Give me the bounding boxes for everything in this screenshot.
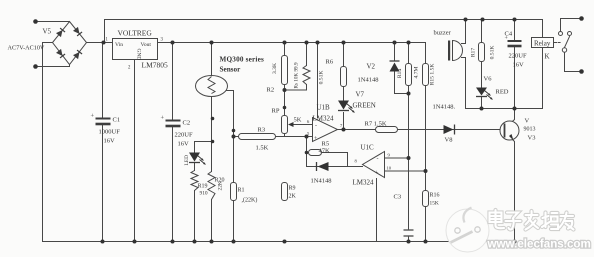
svg-text:R5: R5 bbox=[322, 141, 330, 148]
svg-text:buzzer: buzzer bbox=[434, 30, 452, 37]
resistor R15 box bbox=[423, 64, 429, 86]
resistor Rs zigzag bbox=[303, 66, 310, 85]
op-amp U1C bbox=[363, 152, 385, 178]
svg-text:C1: C1 bbox=[113, 117, 121, 124]
wire relay coil column bbox=[542, 48, 544, 109]
wire V3 emitter to ground bbox=[506, 134, 515, 242]
wire V6 to collector rail bbox=[481, 97, 483, 109]
svg-text:R16: R16 bbox=[430, 193, 440, 199]
capacitor C2 bbox=[166, 121, 181, 127]
svg-text:LM7805: LM7805 bbox=[142, 61, 169, 70]
wire bridge right to regulator Vin bbox=[87, 42, 113, 44]
pin numbers U1B U1C bbox=[307, 119, 392, 171]
svg-text:V2: V2 bbox=[367, 63, 376, 71]
wire R6 V7 column bbox=[343, 43, 345, 130]
capacitor C3 plates bbox=[404, 230, 414, 236]
svg-text:3.3K: 3.3K bbox=[272, 63, 278, 74]
svg-text:LED: LED bbox=[184, 155, 190, 166]
watermark logo circle bbox=[446, 208, 489, 253]
svg-text:5K: 5K bbox=[294, 117, 302, 124]
wire R2 column bbox=[284, 43, 286, 91]
svg-text:GND: GND bbox=[136, 49, 142, 61]
buzzer bbox=[448, 41, 450, 61]
wire U1C plus input to node bbox=[385, 170, 426, 172]
svg-text:C2: C2 bbox=[183, 120, 191, 127]
wire sensor bottom pin down to LED branch and R20 bbox=[195, 94, 212, 172]
svg-text:Vin: Vin bbox=[115, 42, 123, 48]
svg-text:K: K bbox=[545, 53, 550, 61]
terminal AC top bbox=[33, 19, 38, 24]
wire R19 to ground bbox=[194, 191, 196, 242]
svg-text:GREEN: GREEN bbox=[353, 102, 376, 110]
wire U1B feedback junction column bbox=[306, 137, 308, 167]
resistor R17 box bbox=[479, 43, 485, 62]
relay dashed link bbox=[555, 42, 562, 44]
watermark chinese text dianzifashaoyou bbox=[490, 210, 574, 230]
LED V6 bbox=[476, 88, 487, 96]
resistor R19 zigzag bbox=[191, 171, 198, 191]
wire C2 column bbox=[172, 43, 174, 242]
wire LED to R19 bbox=[194, 164, 196, 171]
svg-text:4.7M: 4.7M bbox=[414, 66, 420, 78]
svg-text:10: 10 bbox=[387, 166, 392, 171]
svg-text:U1C: U1C bbox=[361, 144, 375, 152]
svg-text:910: 910 bbox=[200, 191, 208, 197]
switch arm diagonal bbox=[565, 37, 570, 48]
wire buzzer bottom lead bbox=[462, 58, 466, 109]
svg-text:16V: 16V bbox=[104, 138, 116, 145]
resistor R7 box bbox=[376, 127, 398, 133]
svg-text:LM324: LM324 bbox=[313, 115, 335, 123]
wire R14 C3 column bbox=[408, 43, 410, 242]
terminal AC bottom bbox=[33, 64, 38, 69]
svg-text:1N4148.: 1N4148. bbox=[433, 104, 456, 111]
resistor R1 box bbox=[231, 183, 237, 201]
wire switch arm to bottom terminal bbox=[565, 53, 582, 72]
LED V7 bbox=[338, 101, 349, 110]
wire switch top contact to terminal bbox=[561, 19, 582, 32]
resistor R16 box bbox=[423, 191, 429, 207]
svg-text:22K: 22K bbox=[218, 181, 224, 190]
svg-text:1N4148: 1N4148 bbox=[311, 178, 332, 185]
svg-text:Vout: Vout bbox=[141, 42, 152, 48]
svg-text:V8: V8 bbox=[445, 137, 453, 144]
relay K box bbox=[532, 38, 554, 48]
wire R20 to ground bbox=[211, 200, 213, 242]
resistor R2 box bbox=[282, 56, 288, 85]
wire R5 feedback row bbox=[307, 153, 348, 167]
svg-text:-: - bbox=[315, 123, 317, 129]
sensor heater zigzag bbox=[208, 77, 215, 94]
sensor MQ300 ellipse bbox=[196, 76, 228, 97]
op-amp U1B bbox=[313, 118, 338, 142]
svg-text:R19: R19 bbox=[198, 184, 208, 190]
bridge diode bottom-left bbox=[56, 49, 65, 58]
feedback diode 1N4148 bbox=[318, 162, 329, 171]
svg-text:V6: V6 bbox=[484, 76, 493, 83]
svg-text:16V: 16V bbox=[178, 141, 190, 148]
svg-text:1000UF: 1000UF bbox=[99, 129, 121, 136]
svg-text:LM324: LM324 bbox=[353, 179, 375, 187]
svg-text:Relay: Relay bbox=[534, 40, 551, 48]
bridge diode top-right bbox=[73, 27, 82, 36]
svg-text:Rs 10K 99.9: Rs 10K 99.9 bbox=[294, 62, 300, 88]
wire V3 collector bbox=[506, 109, 515, 128]
svg-text:+: + bbox=[161, 115, 165, 122]
transistor V3 9013 bbox=[500, 121, 519, 140]
wire R2 Rs bottom join bbox=[285, 89, 307, 91]
voltage regulator U LM7805 box bbox=[113, 39, 158, 60]
svg-text:0.51K: 0.51K bbox=[319, 71, 325, 85]
resistor R20 zigzag bbox=[208, 172, 215, 200]
wire ground rail bbox=[43, 241, 515, 243]
svg-text:R6: R6 bbox=[326, 59, 334, 66]
wire R3 row to U1B plus input bbox=[234, 136, 313, 138]
svg-text:47K: 47K bbox=[319, 148, 331, 155]
wire U1B supply pin to rail bbox=[317, 43, 319, 118]
svg-text:R17: R17 bbox=[471, 48, 477, 58]
svg-text:R7 1.5K: R7 1.5K bbox=[365, 121, 387, 128]
svg-text:R3: R3 bbox=[258, 127, 266, 134]
wire sensor right electrode down through R1 bbox=[216, 91, 234, 242]
svg-text:RED: RED bbox=[496, 89, 509, 96]
svg-text:0.51K: 0.51K bbox=[490, 46, 496, 60]
wire diode feedback row to U1C output bbox=[307, 166, 363, 168]
bridge diode top-left bbox=[56, 28, 65, 37]
bridge diode bottom-right bbox=[73, 50, 82, 59]
wire +5V rail regulator Vout to R15 corner bbox=[158, 43, 426, 64]
wire AC top terminal to bridge bbox=[36, 21, 70, 23]
svg-text:V5: V5 bbox=[43, 28, 52, 36]
wire AC bottom terminal to bridge bbox=[36, 65, 70, 67]
capacitor C4 bbox=[508, 41, 522, 46]
bridge rectifier V5 bbox=[53, 22, 87, 65]
wire top rail from regulator input junction to relay bbox=[105, 20, 543, 43]
wire sensor heater top bbox=[211, 43, 213, 77]
wire U1B output row through R7 V8 to V3 base bbox=[338, 129, 505, 131]
resistor R9 box bbox=[282, 183, 288, 201]
svg-text:RP: RP bbox=[272, 108, 280, 115]
wire R15 R16 column bbox=[425, 86, 427, 242]
wire U1C minus input to node bbox=[385, 157, 409, 159]
svg-text:,(22K): ,(22K) bbox=[242, 197, 258, 204]
svg-text:R14: R14 bbox=[397, 69, 403, 79]
diode V8 bbox=[444, 125, 454, 134]
svg-text:220UF: 220UF bbox=[509, 53, 527, 60]
svg-text:16V: 16V bbox=[513, 62, 525, 69]
svg-text:V3: V3 bbox=[528, 135, 536, 142]
potentiometer RP bbox=[282, 116, 288, 134]
svg-text:1N4148: 1N4148 bbox=[358, 77, 379, 84]
svg-text:R2: R2 bbox=[267, 87, 275, 94]
resistor R3 box bbox=[239, 134, 276, 140]
svg-text:1.5K: 1.5K bbox=[256, 145, 269, 152]
svg-text:9013: 9013 bbox=[524, 127, 536, 133]
wire RP wiper to U1B minus input bbox=[291, 124, 313, 126]
svg-text:www.elecfans.com: www.elecfans.com bbox=[487, 238, 591, 251]
wire R17 column top bbox=[481, 20, 483, 43]
wire C4 column bbox=[514, 20, 516, 109]
svg-text:15K: 15K bbox=[430, 201, 439, 207]
wire U1C ground stub bbox=[376, 179, 378, 242]
capacitor C1 bbox=[96, 119, 111, 125]
svg-text:V: V bbox=[525, 118, 530, 125]
svg-text:2K: 2K bbox=[289, 194, 297, 200]
svg-text:220UF: 220UF bbox=[175, 132, 193, 139]
resistor R5 box bbox=[309, 150, 322, 156]
wire Rs column bbox=[306, 43, 308, 91]
wire V2 column bbox=[395, 43, 409, 94]
svg-text:U1B: U1B bbox=[317, 104, 331, 112]
relay switch contacts bbox=[559, 32, 563, 36]
svg-text:VOLTREG: VOLTREG bbox=[118, 29, 153, 38]
svg-text:+: + bbox=[91, 113, 95, 120]
wire collector rail bbox=[466, 108, 543, 110]
wire RP column bbox=[284, 90, 286, 137]
svg-text:V7: V7 bbox=[356, 91, 365, 99]
diode V2 bbox=[390, 63, 400, 72]
svg-text:R9: R9 bbox=[289, 186, 296, 192]
svg-text:MQ300 series: MQ300 series bbox=[220, 56, 265, 64]
LED indicator by sensor bbox=[189, 153, 200, 162]
wire regulator GND pin down bbox=[134, 60, 136, 242]
svg-text:Sensor: Sensor bbox=[220, 66, 242, 74]
resistor R6 box bbox=[341, 67, 347, 87]
svg-text:AC7V-AC10V: AC7V-AC10V bbox=[8, 45, 45, 52]
resistor R14 box bbox=[406, 64, 412, 86]
wire buzzer top lead bbox=[462, 20, 466, 44]
wire R17 to V6 bbox=[481, 62, 483, 88]
wire C1 column bbox=[102, 43, 104, 242]
svg-text:C3: C3 bbox=[394, 194, 402, 201]
svg-text:R15 1.5K: R15 1.5K bbox=[430, 64, 436, 86]
wire bridge left corner to ground rail bbox=[43, 43, 53, 242]
svg-text:-: - bbox=[377, 157, 379, 163]
svg-text:R1: R1 bbox=[238, 188, 245, 194]
